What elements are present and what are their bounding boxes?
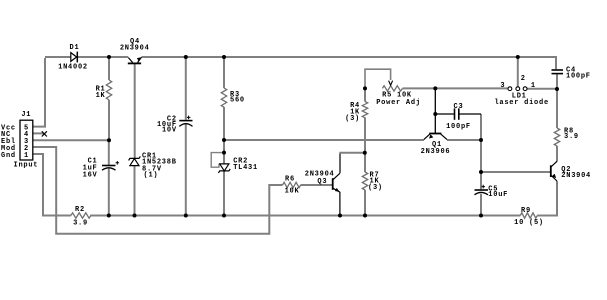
shunt regulator CR2 TL431 xyxy=(218,164,230,173)
svg-text:(3): (3) xyxy=(345,115,360,123)
wire J1 pin4 NC stub xyxy=(33,132,44,134)
wire LD1 pin2 to top rail xyxy=(517,57,519,87)
resistor R2 xyxy=(71,213,91,218)
wire J1 pin2 Mod down and right xyxy=(33,147,269,234)
svg-text:100pF: 100pF xyxy=(446,123,471,131)
node bottom C2 xyxy=(184,214,188,218)
svg-text:Q3: Q3 xyxy=(317,178,327,186)
svg-text:10uF: 10uF xyxy=(488,191,508,199)
svg-text:Power Adj: Power Adj xyxy=(376,99,421,107)
wire J1 pin3 Ebl xyxy=(33,139,109,141)
svg-text:3: 3 xyxy=(500,82,505,90)
node Q1 base C3 xyxy=(433,112,437,116)
node Q2 base C5 xyxy=(479,170,483,174)
potentiometer R5 xyxy=(382,86,402,91)
node mid rail R3 CR2 xyxy=(222,138,226,142)
svg-text:2N3904: 2N3904 xyxy=(120,45,150,53)
potentiometer R5 wiper arrow xyxy=(389,81,393,86)
wire C3 node down to C5 xyxy=(480,140,482,189)
capacitor C1 xyxy=(102,161,119,170)
capacitor C2 xyxy=(179,116,192,127)
svg-text:R2: R2 xyxy=(75,206,85,214)
wire R3 to mid rail xyxy=(223,107,225,140)
wire Q4 base to CR1 xyxy=(134,64,136,158)
svg-text:laser diode: laser diode xyxy=(494,99,548,107)
node top rail LD1 xyxy=(516,55,520,59)
wire J1 pin5 Vcc to top rail xyxy=(33,58,45,127)
wire CR2 reference loop xyxy=(211,153,224,168)
node mid rail C3 xyxy=(479,138,483,142)
svg-text:3.9: 3.9 xyxy=(564,133,579,141)
capacitor C5 xyxy=(475,185,489,195)
svg-text:R6: R6 xyxy=(285,175,295,183)
wire R4 to R7 through Q3 node xyxy=(364,118,366,173)
wire Q3 emitter to bottom rail xyxy=(339,192,341,216)
svg-text:TL431: TL431 xyxy=(233,164,258,172)
wire CR1 anode to bottom rail xyxy=(134,166,136,216)
node bottom Q3 xyxy=(338,214,342,218)
wire top rail to R1 xyxy=(108,57,110,80)
wire R6 to Q3 base xyxy=(301,184,333,186)
wire R1 to Ebl node xyxy=(108,100,110,140)
capacitor C3 xyxy=(435,108,481,119)
node bottom CR2 xyxy=(222,214,226,218)
transistor Q3 xyxy=(333,173,340,192)
wire Q2 emitter down to bottom rail corner xyxy=(537,181,557,216)
no-connect X on J1 pin4 xyxy=(42,131,47,136)
wire Q3 collector up xyxy=(339,153,341,173)
svg-text:Gnd: Gnd xyxy=(1,152,16,160)
zener CR1 xyxy=(129,156,141,165)
wire top rail to C2 xyxy=(185,57,187,120)
svg-text:560: 560 xyxy=(230,97,245,105)
connector J1 xyxy=(20,120,33,160)
wire R5 pot loop xyxy=(365,69,391,88)
svg-text:2N3906: 2N3906 xyxy=(421,148,451,156)
resistor R7 xyxy=(362,172,367,190)
svg-text:10V: 10V xyxy=(162,127,177,135)
wire bottom rail to J1 Gnd pin xyxy=(33,154,71,216)
wire Q2 base xyxy=(481,171,550,173)
resistor R8 xyxy=(554,128,559,146)
svg-text:R9: R9 xyxy=(521,207,531,215)
svg-text:2: 2 xyxy=(521,75,526,83)
node bottom C5 xyxy=(479,214,483,218)
wire top rail left segment xyxy=(45,56,71,58)
capacitor C4 xyxy=(552,70,564,74)
node Q3 collector R4 R7 xyxy=(363,151,367,155)
svg-text:16V: 16V xyxy=(83,171,98,179)
svg-text:10 (5): 10 (5) xyxy=(514,219,544,227)
node pot left xyxy=(363,86,367,90)
svg-text:10K: 10K xyxy=(285,188,300,196)
wire C5 to bottom rail xyxy=(480,194,482,216)
wire CR2 to bottom rail xyxy=(223,171,225,215)
wire Ebl node to C1 xyxy=(108,140,110,165)
node bottom R7 xyxy=(363,214,367,218)
node top rail C2 xyxy=(184,55,188,59)
transistor Q4 xyxy=(128,57,142,63)
resistor R9 xyxy=(520,213,537,218)
wire C3 right to mid rail node xyxy=(480,114,482,140)
svg-text:J1: J1 xyxy=(21,111,31,119)
transistor Q2 xyxy=(551,161,557,181)
resistor R1 xyxy=(106,80,111,100)
svg-text:(1): (1) xyxy=(144,172,159,180)
wire up to R6 xyxy=(269,185,282,235)
wire top rail D1 to Q4 xyxy=(78,56,129,58)
node CR2 ref xyxy=(222,151,226,155)
resistor R6 xyxy=(283,182,301,187)
node bottom CR1 xyxy=(133,214,137,218)
svg-text:Input: Input xyxy=(14,162,39,170)
laser diode LD1 xyxy=(508,87,527,91)
svg-text:1: 1 xyxy=(24,152,29,160)
resistor R4 xyxy=(362,102,367,118)
wire R8 to Q2 collector xyxy=(556,146,558,162)
svg-text:2N3904: 2N3904 xyxy=(561,172,591,180)
node pot right xyxy=(433,86,437,90)
wire R5 to LD1 pin3 xyxy=(403,87,508,89)
node top rail R3 xyxy=(222,55,226,59)
svg-text:1K: 1K xyxy=(96,92,106,100)
diode D1 xyxy=(71,52,78,63)
wire Q1 emitter to C3 node xyxy=(447,139,481,141)
svg-text:100pF: 100pF xyxy=(566,72,591,80)
node Ebl C1 R1 xyxy=(107,138,111,142)
svg-text:(3): (3) xyxy=(368,184,383,192)
wire top rail Q4 emitter to right corner down to C4 xyxy=(142,57,558,69)
wire C2 to bottom rail xyxy=(185,124,187,216)
wire mid rail to Q1 collector xyxy=(224,139,424,141)
wire pot node to R4 xyxy=(364,88,366,101)
svg-text:1: 1 xyxy=(531,82,536,90)
node bottom C1 xyxy=(107,214,111,218)
wire bottom rail xyxy=(90,215,481,217)
wire top rail to R3 xyxy=(223,57,225,88)
wire mid rail node to CR2 xyxy=(223,140,225,164)
svg-text:D1: D1 xyxy=(70,44,80,52)
resistor R3 xyxy=(221,88,226,107)
node top rail R1 xyxy=(107,55,111,59)
node LD1 C4 R8 xyxy=(555,87,559,91)
svg-text:3.9: 3.9 xyxy=(73,220,88,228)
transistor Q1 xyxy=(424,88,447,139)
wire LD1 pin1 to R8 node xyxy=(527,88,557,90)
wire R7 to bottom rail xyxy=(364,190,366,216)
wire C1 to bottom rail xyxy=(108,169,110,216)
wire Q3 collector to R4/R7 node xyxy=(339,152,364,154)
wire R9 to C5 node xyxy=(481,215,520,217)
svg-text:1N4002: 1N4002 xyxy=(58,64,88,72)
wire C4 to R8 node xyxy=(556,75,558,129)
svg-text:C3: C3 xyxy=(454,103,464,111)
